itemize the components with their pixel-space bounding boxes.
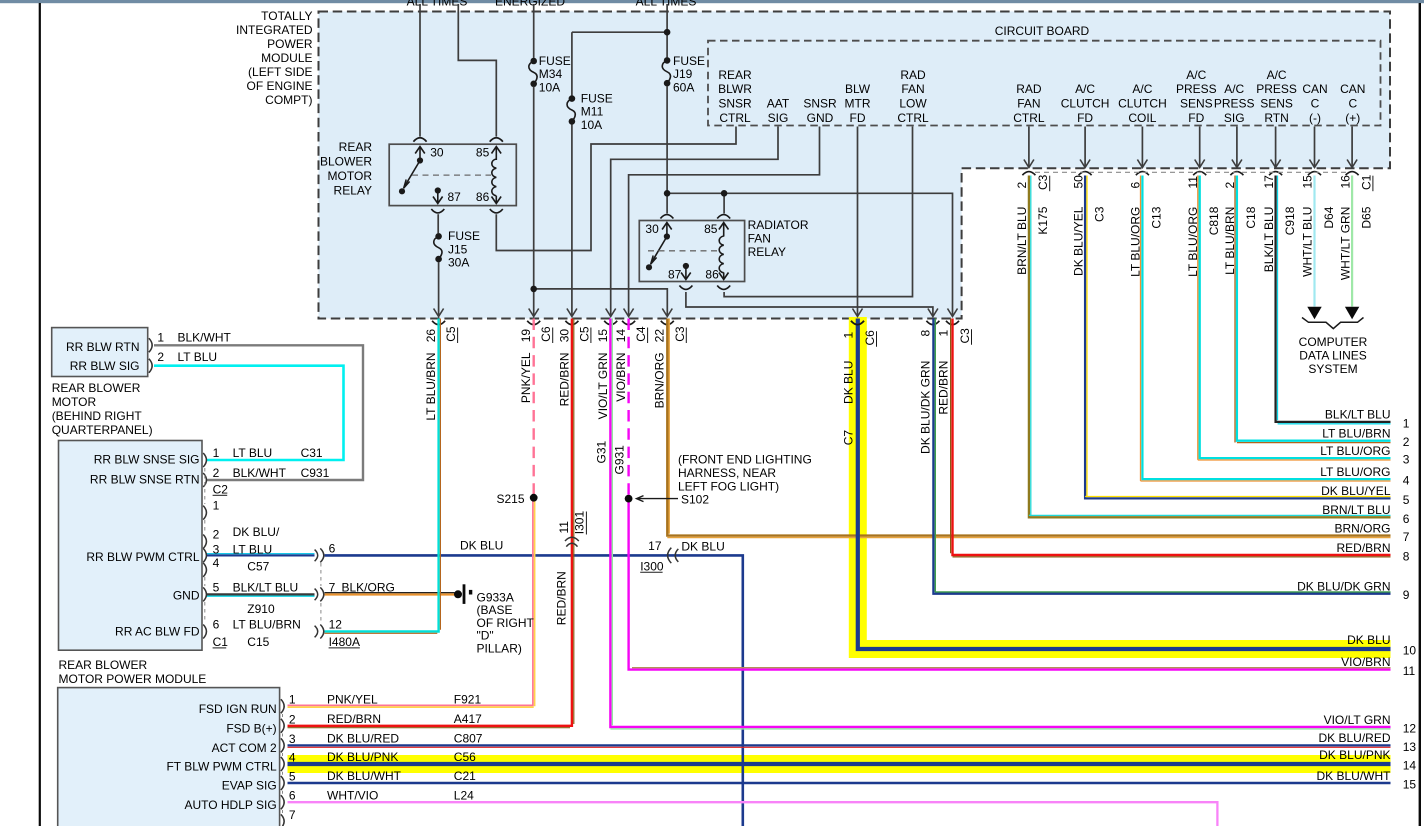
- svg-text:ALL TIMES: ALL TIMES: [636, 0, 697, 8]
- wire WHT/LT GRN CAN bus plus: [1351, 176, 1353, 307]
- wire ALL TIMES feed to RBM relay 30: [419, 4, 421, 137]
- svg-text:REAR BLOWER: REAR BLOWER: [59, 658, 148, 672]
- svg-text:BLK/LT BLU: BLK/LT BLU: [1325, 408, 1391, 422]
- wire LT BLU blower signal: [154, 366, 344, 460]
- svg-text:FD: FD: [1188, 111, 1204, 125]
- svg-text:11: 11: [557, 521, 571, 534]
- svg-text:FUSE: FUSE: [673, 54, 705, 68]
- top header bar: [0, 0, 1424, 3]
- brace under computer data line triangles: [1302, 318, 1364, 329]
- relay RFR terminal 30 arrow: [662, 223, 672, 236]
- svg-text:BLK/WHT: BLK/WHT: [178, 331, 232, 345]
- svg-text:FD: FD: [1077, 111, 1093, 125]
- svg-text:FUSE: FUSE: [581, 91, 613, 105]
- splice S102 dot: [625, 495, 633, 503]
- svg-text:10: 10: [1403, 644, 1417, 658]
- svg-text:C: C: [1348, 97, 1357, 111]
- svg-text:RED/BRN: RED/BRN: [557, 352, 571, 406]
- svg-text:S215: S215: [496, 492, 524, 506]
- svg-text:(+): (+): [1345, 111, 1360, 125]
- wire ALL TIMES feed to RBM relay 85: [458, 4, 496, 137]
- svg-text:WHT/LT GRN: WHT/LT GRN: [1338, 207, 1352, 281]
- svg-text:LT BLU: LT BLU: [233, 446, 273, 460]
- circuit board pin name A/C PRESS SENS RTN: [1256, 68, 1297, 125]
- net label COMPUTER DATA LINES SYSTEM: [1299, 335, 1368, 376]
- svg-text:PRESS: PRESS: [1176, 82, 1217, 96]
- svg-text:C13: C13: [1150, 206, 1164, 228]
- wire circuit board RAD FAN CTRL exit: [1028, 127, 1030, 167]
- circuit board pin name BLW MTR FD: [845, 82, 871, 125]
- svg-text:RADIATOR: RADIATOR: [748, 218, 809, 232]
- svg-text:1: 1: [213, 499, 220, 513]
- svg-text:ENERGIZED: ENERGIZED: [495, 0, 565, 8]
- svg-text:BRN/ORG: BRN/ORG: [1334, 522, 1390, 536]
- svg-text:C7: C7: [841, 430, 855, 446]
- wire DK BLU/RED module pin 3 to right edge 13: [288, 744, 1391, 746]
- wire LT BLU/ORG from A/C CLUTCH COIL to right edge 4: [1142, 176, 1390, 480]
- svg-text:COMPT): COMPT): [265, 93, 312, 107]
- wire branch to fuse M11: [572, 31, 667, 33]
- svg-text:PILLAR): PILLAR): [477, 641, 522, 655]
- svg-text:FSD IGN RUN: FSD IGN RUN: [199, 702, 277, 716]
- svg-text:C21: C21: [454, 769, 476, 783]
- relay RFR actuation dashed line: [648, 250, 718, 252]
- wire circuit board A/C PRESS SENS FD exit: [1199, 127, 1201, 167]
- svg-text:2: 2: [213, 528, 220, 542]
- wire PNK/YEL solid from S215 to module pin 1: [288, 498, 534, 705]
- circuit board pin name RAD FAN CTRL: [1013, 82, 1045, 125]
- splice S102 pointer arrow: [637, 496, 679, 502]
- svg-text:MODULE: MODULE: [261, 51, 312, 65]
- inline connector I301 arcs on RED/BRN: [565, 537, 579, 546]
- wire BRN/ORG from TIPM pin 22 to right edge 7: [667, 319, 1390, 536]
- fuse J19 60A: [662, 54, 705, 95]
- circuit board pin name REAR BLWR SNSR CTRL: [718, 68, 752, 125]
- relay RFR wiper end dot: [646, 264, 652, 270]
- relay REAR BLOWER MOTOR RELAY box: [389, 144, 516, 205]
- wire ENERGIZED feed through fuse M34 down to pin 19: [533, 4, 535, 58]
- connector half-circle above RFR 30: [660, 215, 673, 219]
- module RBM caption: [52, 381, 153, 437]
- wire BLK/ORG to ground G933A: [325, 593, 455, 595]
- svg-text:(BEHIND RIGHT: (BEHIND RIGHT: [52, 409, 143, 423]
- splice S215 dot: [530, 494, 538, 502]
- svg-text:A/C: A/C: [1267, 68, 1287, 82]
- svg-text:MOTOR: MOTOR: [328, 169, 373, 183]
- svg-text:PRESS: PRESS: [1214, 97, 1255, 111]
- svg-text:CIRCUIT BOARD: CIRCUIT BOARD: [995, 24, 1090, 38]
- svg-text:VIO/BRN: VIO/BRN: [614, 352, 628, 401]
- svg-text:C2: C2: [213, 482, 229, 496]
- inline connector I480A arcs at pin 7: [315, 587, 324, 601]
- svg-text:RR BLW RTN: RR BLW RTN: [66, 340, 140, 354]
- svg-text:C3: C3: [1036, 174, 1050, 190]
- svg-text:RR AC BLW FD: RR AC BLW FD: [115, 624, 200, 638]
- wire LT BLU/ORG from A/C PRESS SENS FD to right edge 3: [1200, 176, 1391, 459]
- circuit board pin name AAT SIG: [767, 97, 790, 125]
- connector half-circle below RFR 87: [679, 286, 692, 290]
- svg-text:S102: S102: [681, 492, 709, 506]
- svg-text:C3: C3: [673, 326, 687, 342]
- svg-text:CTRL: CTRL: [897, 111, 929, 125]
- svg-text:BLK/LT BLU: BLK/LT BLU: [1262, 207, 1276, 273]
- svg-text:10A: 10A: [581, 118, 602, 132]
- wire DK BLU/PNK core module pin 4 to right edge 14: [288, 762, 1391, 766]
- wire WHT/LT BLU CAN bus minus: [1313, 176, 1315, 307]
- svg-text:MOTOR: MOTOR: [52, 395, 97, 409]
- svg-text:COIL: COIL: [1128, 111, 1156, 125]
- svg-text:17: 17: [648, 539, 662, 553]
- svg-text:SNSR: SNSR: [803, 97, 837, 111]
- svg-text:DK BLU/: DK BLU/: [233, 525, 280, 539]
- connector cups below circuit board exits: [1022, 172, 1358, 176]
- wire BLK/LT BLU from A/C PRESS SENS RTN to right edge 1: [1276, 176, 1391, 422]
- svg-text:14: 14: [614, 329, 628, 343]
- relay RBM terminal 86 arrow: [492, 196, 502, 204]
- svg-text:VIO/LT GRN: VIO/LT GRN: [596, 352, 610, 419]
- left page border line: [39, 3, 41, 826]
- junction dot M34 output to pin 22: [530, 286, 537, 293]
- module RBMPM connector face dashed line: [204, 468, 206, 623]
- wire BLK/WHT blower return: [154, 345, 363, 480]
- fuse J15 30A: [434, 229, 480, 270]
- harness location note FRONT END LIGHTING: [678, 452, 812, 493]
- svg-text:60A: 60A: [673, 80, 694, 94]
- svg-text:2: 2: [213, 466, 220, 480]
- relay RADIATOR FAN RELAY box: [639, 221, 744, 282]
- wire RED/BRN from TIPM pin 30 to module pin 2: [288, 319, 572, 726]
- relay RBM contact 30 dot: [417, 157, 423, 163]
- svg-text:7: 7: [329, 580, 336, 594]
- svg-text:LT BLU: LT BLU: [178, 350, 218, 364]
- circuit board dashed box: [708, 41, 1381, 126]
- svg-text:I301: I301: [572, 511, 586, 535]
- svg-text:CAN: CAN: [1302, 82, 1327, 96]
- svg-text:POWER: POWER: [267, 37, 313, 51]
- wire BRN/LT BLU from RAD FAN CTRL to right edge 6: [1029, 176, 1391, 518]
- svg-text:26: 26: [424, 329, 438, 343]
- svg-text:INTEGRATED: INTEGRATED: [236, 23, 313, 37]
- ground G933A symbol: [454, 584, 472, 604]
- svg-text:EVAP SIG: EVAP SIG: [222, 779, 277, 793]
- module REAR BLOWER MOTOR POWER MODULE upper box: [59, 441, 203, 651]
- fuse M34 10A: [529, 54, 571, 95]
- svg-text:10A: 10A: [539, 80, 560, 94]
- svg-text:2: 2: [157, 350, 164, 364]
- svg-text:D64: D64: [1322, 206, 1336, 228]
- connector cup at pin 1 C6 redrawn over highlight: [851, 321, 864, 325]
- relay RFR switch wiper: [652, 237, 667, 263]
- svg-text:RED/BRN: RED/BRN: [327, 712, 381, 726]
- wire VIO/LT GRN from TIPM pin 15 to right edge 12: [610, 319, 1390, 728]
- svg-text:C6: C6: [863, 330, 877, 346]
- svg-text:30: 30: [430, 145, 444, 159]
- svg-text:FUSE: FUSE: [539, 54, 571, 68]
- svg-text:PNK/YEL: PNK/YEL: [519, 352, 533, 403]
- svg-text:11: 11: [1403, 664, 1416, 678]
- svg-text:PRESS: PRESS: [1256, 82, 1297, 96]
- relay RBM label: [320, 140, 372, 198]
- relay RBM terminal 87 dot and arrow: [435, 187, 441, 193]
- circuit board pin name CAN C minus: [1302, 82, 1327, 125]
- svg-text:SYSTEM: SYSTEM: [1308, 362, 1357, 376]
- svg-text:FAN: FAN: [1017, 97, 1040, 111]
- wire fuse M34 junction to pin 22 exit: [534, 289, 668, 316]
- circuit board pin name A/C CLUTCH FD: [1061, 82, 1110, 125]
- svg-text:CAN: CAN: [1340, 82, 1365, 96]
- module lower connector face dashed line: [282, 714, 284, 814]
- svg-text:DK BLU/WHT: DK BLU/WHT: [327, 769, 402, 783]
- inline connector I300 arcs on DK BLU: [668, 548, 679, 563]
- svg-text:RELAY: RELAY: [748, 245, 786, 259]
- svg-text:VIO/LT GRN: VIO/LT GRN: [1324, 713, 1391, 727]
- relay RFR terminal 85 arrow: [719, 223, 729, 237]
- wire RBM relay 86 to circuit board REAR BLWR SNSR CTRL: [496, 127, 736, 251]
- svg-text:LEFT FOG LIGHT): LEFT FOG LIGHT): [678, 479, 779, 493]
- svg-text:BLWR: BLWR: [718, 82, 752, 96]
- connector half-circle below RFR 86: [717, 286, 730, 290]
- svg-text:CTRL: CTRL: [719, 111, 751, 125]
- svg-text:14: 14: [1403, 759, 1417, 773]
- svg-text:C: C: [1311, 97, 1320, 111]
- svg-text:OF ENGINE: OF ENGINE: [246, 79, 312, 93]
- svg-text:17: 17: [1262, 175, 1276, 189]
- svg-text:RR BLW SNSE SIG: RR BLW SNSE SIG: [94, 453, 200, 467]
- svg-text:C3: C3: [958, 328, 972, 344]
- svg-text:C56: C56: [454, 750, 476, 764]
- wire fuse M11 output down to pin 30: [571, 125, 573, 316]
- svg-text:DK BLU/DK GRN: DK BLU/DK GRN: [1297, 580, 1390, 594]
- svg-text:BLOWER: BLOWER: [320, 155, 372, 169]
- svg-text:6: 6: [289, 789, 296, 803]
- wire circuit board BLW MTR FD to pin 1 C6 exit: [857, 127, 859, 316]
- wire LT BLU/BRN from A/C PRESS SIG to right edge 2: [1237, 176, 1391, 441]
- module RBM pin 1 arc: [149, 338, 152, 352]
- svg-text:C5: C5: [444, 326, 458, 342]
- svg-text:RAD: RAD: [900, 68, 926, 82]
- svg-text:1: 1: [936, 330, 950, 337]
- wire circuit board CAN C minus exit: [1314, 127, 1316, 167]
- svg-text:FD: FD: [850, 111, 866, 125]
- svg-text:F921: F921: [454, 692, 482, 706]
- svg-text:REAR: REAR: [339, 140, 373, 154]
- wire DK BLU main run to bottom: [325, 555, 743, 826]
- svg-text:87: 87: [668, 268, 682, 282]
- svg-text:G31: G31: [595, 440, 609, 463]
- wire DK BLU/WHT module pin 5 to right edge 15: [288, 782, 1391, 784]
- svg-text:(-): (-): [1309, 111, 1321, 125]
- svg-text:REAR BLOWER: REAR BLOWER: [52, 381, 141, 395]
- svg-text:BRN/LT BLU: BRN/LT BLU: [1322, 503, 1390, 517]
- svg-text:MOTOR POWER MODULE: MOTOR POWER MODULE: [59, 672, 207, 686]
- svg-text:8: 8: [918, 330, 932, 337]
- svg-text:BRN/ORG: BRN/ORG: [653, 352, 667, 408]
- inline connector I480A face dashed line: [320, 563, 322, 623]
- svg-text:SNSR: SNSR: [718, 97, 752, 111]
- svg-text:(FRONT END LIGHTING: (FRONT END LIGHTING: [678, 452, 812, 466]
- wire DK BLU/YEL from A/C CLUTCH FD to right edge 5: [1085, 176, 1390, 499]
- svg-text:RED/BRN: RED/BRN: [1336, 541, 1390, 555]
- svg-text:C4: C4: [634, 326, 648, 342]
- svg-text:I480A: I480A: [329, 635, 360, 649]
- wire BLK/LT BLU ground lead: [207, 593, 315, 595]
- svg-text:3: 3: [1403, 453, 1410, 467]
- svg-text:AUTO HDLP SIG: AUTO HDLP SIG: [184, 798, 276, 812]
- svg-text:4: 4: [1403, 474, 1410, 488]
- wire DK BLU/LT BLU pwm ctrl: [207, 554, 315, 556]
- svg-text:C3: C3: [1092, 206, 1106, 222]
- relay RFR terminal 87 dot and arrow: [683, 263, 689, 269]
- module RBMPM connector C2 pin arcs: [203, 453, 206, 639]
- svg-text:SENS: SENS: [1260, 97, 1293, 111]
- power module TIPM shaded region: [319, 12, 1391, 319]
- svg-text:4: 4: [213, 556, 220, 570]
- relay RBM actuation dashed line: [412, 174, 491, 176]
- wire VIO/BRN dashed from TIPM pin 14 to splice S102: [627, 319, 629, 496]
- relay RFR terminal 86 arrow: [719, 273, 729, 280]
- svg-text:LT BLU/BRN: LT BLU/BRN: [233, 618, 301, 632]
- svg-text:85: 85: [704, 222, 718, 236]
- svg-text:GND: GND: [173, 588, 200, 602]
- svg-text:BLK/LT BLU: BLK/LT BLU: [233, 580, 299, 594]
- wire PNK/YEL dashed from TIPM pin 19 to splice S215: [533, 319, 535, 495]
- wire RBM relay 87 through fuse J15 to pin 26 exit: [437, 214, 439, 233]
- wire circuit board A/C PRESS SENS RTN exit: [1275, 127, 1277, 167]
- svg-text:J19: J19: [673, 67, 693, 81]
- svg-text:1: 1: [1403, 416, 1410, 430]
- svg-text:3: 3: [213, 542, 220, 556]
- svg-text:1: 1: [213, 446, 220, 460]
- svg-text:D65: D65: [1359, 206, 1373, 228]
- svg-text:SIG: SIG: [1224, 111, 1245, 125]
- svg-text:5: 5: [1403, 493, 1410, 507]
- svg-text:RELAY: RELAY: [334, 184, 372, 198]
- circuit board pin name CAN C plus: [1340, 82, 1365, 125]
- module RBMPM lower box: [58, 688, 280, 826]
- svg-text:A/C: A/C: [1132, 82, 1152, 96]
- svg-text:A/C: A/C: [1224, 82, 1244, 96]
- svg-text:FAN: FAN: [901, 82, 924, 96]
- wire bus from J19 junction right to pin 1 C3 exit: [667, 193, 952, 315]
- connector strip dashed line linking circuit board exit connectors: [1035, 171, 1346, 173]
- connector half-circle below RBM 86: [490, 209, 503, 213]
- svg-text:Z910: Z910: [247, 602, 275, 616]
- svg-text:RED/BRN: RED/BRN: [555, 571, 569, 625]
- relay RFR coil: [719, 236, 724, 273]
- svg-text:87: 87: [448, 190, 462, 204]
- svg-text:12: 12: [1403, 722, 1417, 736]
- svg-text:BLW: BLW: [845, 82, 871, 96]
- svg-text:(LEFT SIDE: (LEFT SIDE: [248, 65, 312, 79]
- svg-text:SENS: SENS: [1180, 97, 1213, 111]
- svg-text:8: 8: [1403, 550, 1410, 564]
- circuit board pin name A/C CLUTCH COIL: [1118, 82, 1167, 125]
- svg-text:C818: C818: [1207, 206, 1221, 235]
- svg-text:5: 5: [213, 580, 220, 594]
- svg-text:FAN: FAN: [748, 231, 771, 245]
- svg-text:LOW: LOW: [899, 97, 927, 111]
- connector cups below TIPM bottom edge: [432, 321, 959, 325]
- svg-text:30: 30: [557, 329, 571, 343]
- wire ALL TIMES feed through fuse J19 to RFR relay 30: [666, 4, 668, 58]
- wire circuit board RAD FAN LOW CTRL to RFR relay 86: [724, 127, 912, 297]
- svg-text:DK BLU/YEL: DK BLU/YEL: [1321, 484, 1391, 498]
- fuse M11 10A: [567, 91, 613, 132]
- circuit board pin name A/C PRESS SENS FD: [1176, 68, 1217, 125]
- svg-text:DK BLU/PNK: DK BLU/PNK: [1319, 748, 1390, 762]
- svg-text:G931: G931: [612, 445, 626, 475]
- svg-text:DK BLU: DK BLU: [681, 539, 724, 553]
- svg-text:12: 12: [329, 618, 343, 632]
- svg-text:LT BLU/ORG: LT BLU/ORG: [1320, 465, 1390, 479]
- svg-text:BLK/WHT: BLK/WHT: [233, 466, 287, 480]
- svg-text:FSD B(+): FSD B(+): [226, 721, 276, 735]
- svg-text:7: 7: [1403, 530, 1410, 544]
- svg-text:C15: C15: [247, 635, 269, 649]
- svg-text:DK BLU/YEL: DK BLU/YEL: [1071, 206, 1085, 276]
- highlight band on DK BLU/PNK front blower wire: [288, 755, 1391, 773]
- svg-text:86: 86: [476, 190, 490, 204]
- svg-text:RAD: RAD: [1016, 82, 1042, 96]
- svg-text:16: 16: [1338, 175, 1352, 189]
- module RBM pin 2 arc: [149, 359, 152, 373]
- svg-text:2: 2: [1015, 182, 1029, 189]
- svg-text:1: 1: [289, 693, 296, 707]
- svg-text:85: 85: [476, 145, 490, 159]
- svg-text:DK BLU/PNK: DK BLU/PNK: [327, 750, 398, 764]
- svg-text:C6: C6: [539, 326, 553, 342]
- circuit board pin name RAD FAN LOW CTRL: [897, 68, 929, 125]
- svg-text:50: 50: [1071, 175, 1085, 189]
- wire RFR relay 87 to pin 8 exit: [686, 292, 933, 316]
- svg-text:WHT/LT BLU: WHT/LT BLU: [1301, 207, 1315, 277]
- svg-text:7: 7: [289, 808, 296, 822]
- svg-text:DK BLU: DK BLU: [460, 539, 503, 553]
- svg-text:C807: C807: [454, 732, 483, 746]
- circuit board pin name A/C PRESS SIG: [1214, 82, 1255, 125]
- svg-text:15: 15: [1403, 778, 1417, 792]
- relay RBM wiper end dot: [399, 188, 405, 194]
- svg-text:LT BLU/BRN: LT BLU/BRN: [1322, 427, 1390, 441]
- circuit board pin name SNSR GND: [803, 97, 837, 125]
- svg-text:C1: C1: [213, 635, 229, 649]
- wire VIO/BRN solid from S102 to right edge 11: [629, 500, 1391, 670]
- svg-text:DATA LINES: DATA LINES: [1299, 349, 1367, 363]
- svg-text:15: 15: [596, 329, 610, 343]
- svg-text:FT BLW PWM CTRL: FT BLW PWM CTRL: [166, 760, 277, 774]
- svg-text:HARNESS, NEAR: HARNESS, NEAR: [678, 466, 776, 480]
- svg-text:PNK/YEL: PNK/YEL: [327, 692, 378, 706]
- svg-text:CTRL: CTRL: [1013, 111, 1045, 125]
- svg-text:C1: C1: [1359, 174, 1373, 190]
- svg-text:C18: C18: [1244, 206, 1258, 228]
- svg-text:1: 1: [157, 331, 164, 345]
- svg-text:15: 15: [1301, 175, 1315, 189]
- wire circuit board SNSR GND to pin 14 exit: [629, 127, 820, 316]
- relay RBM coil: [492, 159, 497, 196]
- relay RBM switch wiper: [405, 161, 421, 187]
- relay RFR label: [748, 218, 809, 259]
- svg-text:A/C: A/C: [1075, 82, 1095, 96]
- label TOTALLY INTEGRATED POWER MODULE: [236, 9, 313, 107]
- wire WHT/VIO module pin 6 down off page: [288, 802, 1218, 826]
- svg-text:SIG: SIG: [768, 111, 789, 125]
- svg-text:C931: C931: [301, 466, 330, 480]
- svg-text:RTN: RTN: [1264, 111, 1288, 125]
- svg-text:LT BLU: LT BLU: [233, 542, 273, 556]
- svg-text:L24: L24: [454, 788, 474, 802]
- svg-text:CLUTCH: CLUTCH: [1118, 97, 1167, 111]
